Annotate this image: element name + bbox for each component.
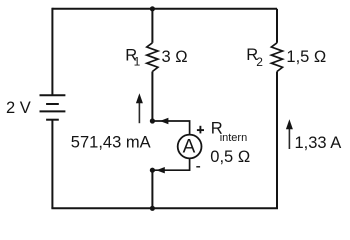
- resistor R2: [271, 43, 282, 72]
- ammeter U1 circle: [178, 135, 202, 159]
- arrowhead on bottom detour pointing left: [156, 167, 165, 173]
- svg-text:1,5 Ω: 1,5 Ω: [286, 48, 326, 66]
- svg-text:2: 2: [256, 55, 263, 69]
- node dot top: [150, 6, 155, 11]
- label plus sign: [197, 126, 204, 134]
- resistor R1: [147, 43, 158, 72]
- current arrow I1 up (571,43 mA): [136, 93, 143, 123]
- wire middle branch upper lead: [151, 9, 153, 43]
- wire left branch bottom (battery bottom lead): [51, 120, 53, 209]
- svg-text:2 V: 2 V: [6, 99, 31, 117]
- arrowhead on top detour pointing left: [160, 118, 169, 124]
- node dot lower middle: [150, 168, 155, 173]
- wire middle branch between bottom node and bottom side: [151, 170, 153, 208]
- svg-text:intern: intern: [220, 132, 248, 144]
- current arrow I2 up (1,33 A): [286, 119, 293, 149]
- svg-text:3 Ω: 3 Ω: [162, 48, 188, 66]
- wire right branch lower lead: [276, 72, 278, 209]
- svg-text:1,33 A: 1,33 A: [295, 134, 342, 152]
- battery B1 2 V: [40, 95, 66, 119]
- wire ammeter bottom detour: [152, 158, 189, 170]
- svg-text:571,43 mA: 571,43 mA: [71, 134, 151, 152]
- wire ammeter top detour: [152, 121, 189, 135]
- wire bottom side: [51, 207, 278, 209]
- wire middle branch between R1 and top node: [151, 72, 153, 122]
- wire right branch upper lead: [276, 9, 278, 43]
- svg-text:A: A: [183, 136, 196, 157]
- svg-text:1: 1: [134, 55, 141, 69]
- label minus sign: [196, 166, 200, 167]
- node dot bottom: [150, 206, 155, 211]
- svg-text:0,5 Ω: 0,5 Ω: [210, 148, 250, 166]
- wire top side: [52, 8, 277, 10]
- wire left branch top (battery top lead): [51, 8, 53, 96]
- node dot upper middle: [150, 118, 155, 123]
